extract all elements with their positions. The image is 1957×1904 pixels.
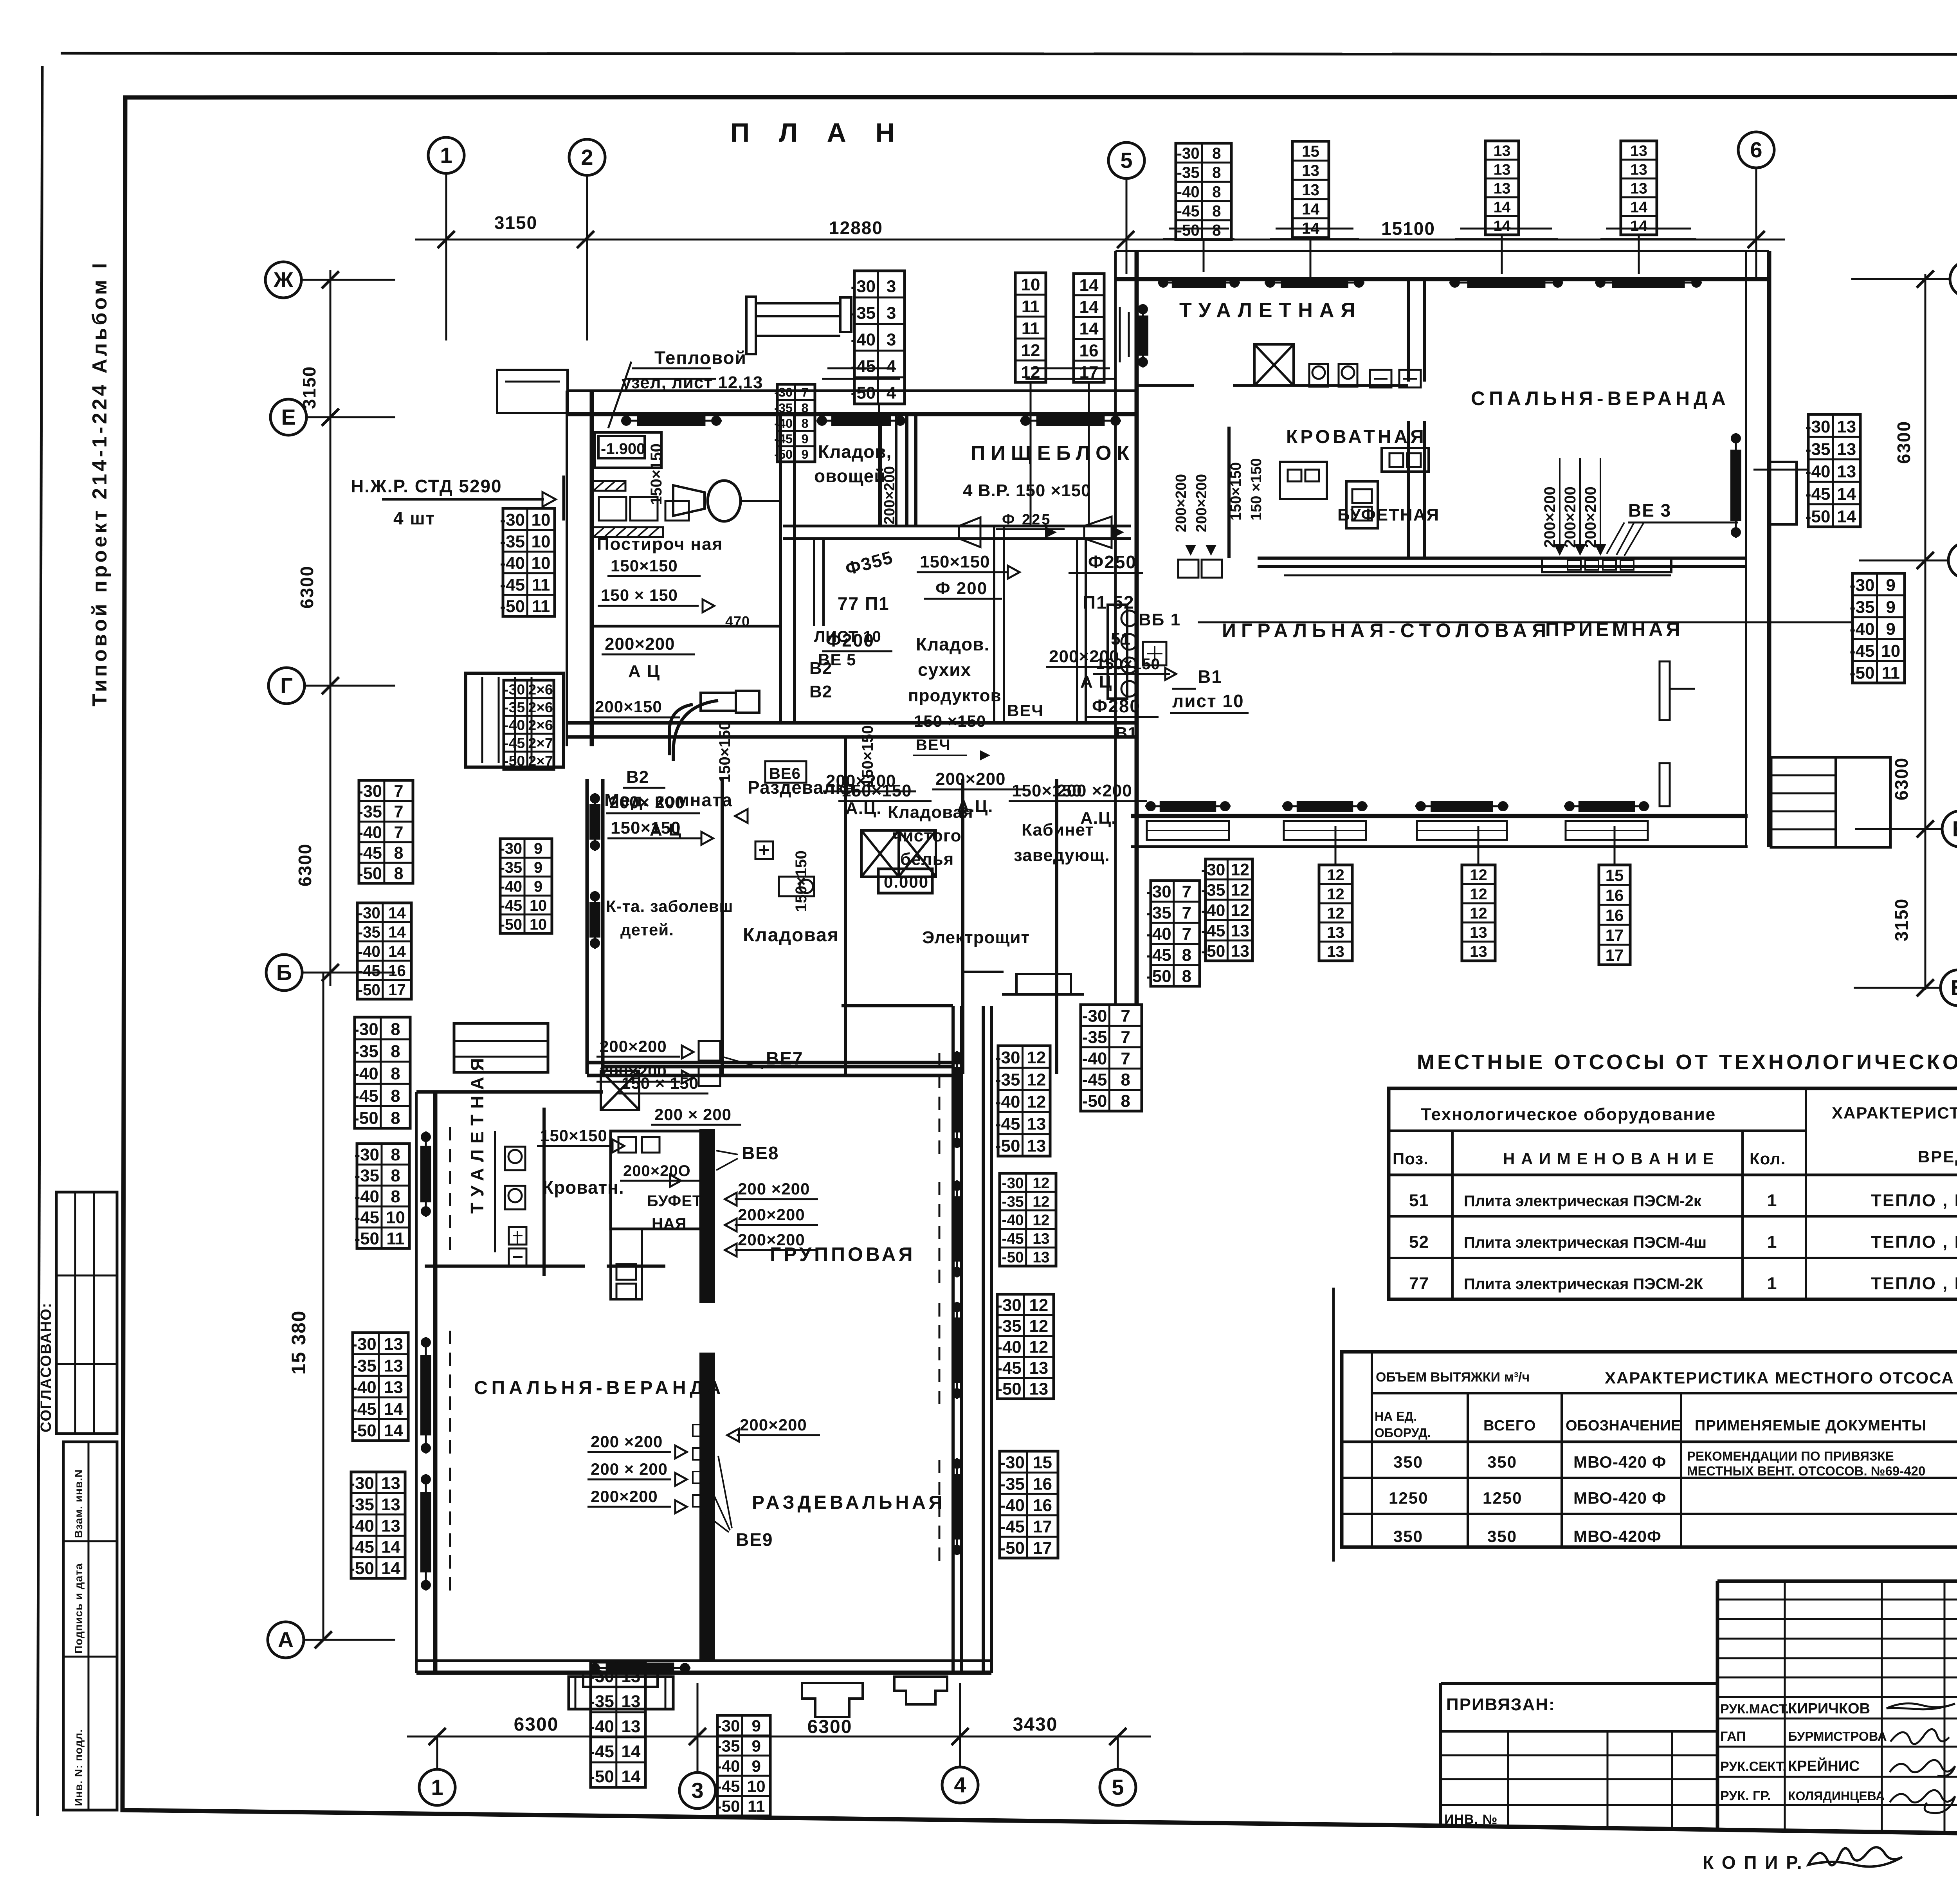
svg-text:13: 13	[1630, 142, 1647, 159]
svg-text:-35: -35	[354, 1166, 379, 1185]
svg-text:6300: 6300	[297, 566, 317, 609]
svg-text:200 ×200: 200 ×200	[591, 1432, 663, 1451]
table T19	[351, 1472, 405, 1578]
svg-text:15: 15	[1606, 866, 1624, 884]
svg-text:14: 14	[381, 1538, 400, 1557]
table T15	[357, 903, 411, 999]
svg-text:200×200: 200×200	[600, 1062, 667, 1081]
svg-text:10: 10	[532, 510, 551, 530]
svg-text:А: А	[278, 1627, 294, 1652]
svg-text:-40: -40	[1201, 901, 1225, 920]
svg-text:-40: -40	[354, 1187, 379, 1206]
title block middle grid	[1717, 1580, 1957, 1583]
svg-text:-30: -30	[1806, 417, 1831, 436]
svg-text:Раздевалка: Раздевалка	[748, 777, 855, 798]
UR block left wall	[1114, 251, 1117, 1006]
svg-text:Инв. N: подл.: Инв. N: подл.	[72, 1729, 85, 1806]
svg-text:-50: -50	[349, 1559, 374, 1578]
svg-text:200×200: 200×200	[1582, 486, 1599, 548]
UL block top wall	[567, 389, 1137, 392]
svg-text:3: 3	[887, 277, 896, 296]
main duct П1	[783, 525, 1131, 528]
svg-text:8: 8	[394, 864, 403, 883]
svg-text:МВО-420 Ф: МВО-420 Ф	[1573, 1489, 1667, 1507]
svg-text:8: 8	[1121, 1070, 1130, 1090]
svg-text:13: 13	[1837, 417, 1856, 436]
svg-text:Кол.: Кол.	[1750, 1149, 1786, 1168]
svg-text:4 шт: 4 шт	[393, 508, 435, 528]
svg-text:В2: В2	[626, 767, 649, 787]
LL block right wall (double pair)	[951, 1006, 955, 1673]
UR misc boxes near ВБ1	[1178, 560, 1198, 578]
svg-text:150×150: 150×150	[1228, 462, 1244, 521]
svg-text:8: 8	[391, 1042, 400, 1061]
svg-text:8: 8	[1121, 1092, 1130, 1111]
svg-text:-40: -40	[351, 1378, 377, 1397]
svg-text:-45: -45	[353, 1086, 378, 1106]
svg-text:13: 13	[1494, 142, 1511, 159]
duct vertical x2540	[993, 526, 995, 723]
svg-text:Типовой проект 214-1-224: Типовой проект 214-1-224 Альбом I	[88, 260, 111, 706]
table T16	[355, 1017, 410, 1128]
svg-text:МВО-420 Ф: МВО-420 Ф	[1573, 1453, 1667, 1471]
svg-text:8: 8	[391, 1145, 400, 1164]
svg-text:12: 12	[1033, 1175, 1049, 1192]
axis circle 5 top	[1108, 142, 1144, 178]
bottom dimension line	[407, 1736, 1151, 1738]
svg-text:ЛИСТ 10: ЛИСТ 10	[814, 628, 881, 645]
axis circle Д right	[1948, 542, 1957, 578]
table T30	[717, 1715, 770, 1816]
svg-text:14: 14	[1630, 198, 1647, 216]
svg-text:14: 14	[388, 904, 406, 922]
svg-text:15: 15	[1033, 1453, 1052, 1472]
svg-text:-40: -40	[1082, 1049, 1107, 1068]
svg-text:-35: -35	[500, 859, 522, 876]
svg-text:-40: -40	[774, 416, 793, 431]
svg-text:11: 11	[1881, 663, 1900, 683]
svg-text:16: 16	[388, 962, 406, 980]
svg-text:8: 8	[391, 1109, 400, 1128]
mid row walls	[586, 779, 589, 1074]
svg-text:17: 17	[1606, 946, 1624, 964]
svg-text:-45: -45	[351, 1400, 377, 1419]
svg-text:15100: 15100	[1381, 218, 1435, 239]
svg-text:ВЕ 5: ВЕ 5	[818, 650, 856, 669]
axis circle 1 top	[428, 137, 464, 173]
svg-text:13: 13	[1327, 924, 1344, 941]
axis circle 5 bottom	[1100, 1769, 1136, 1805]
axis circle В right	[1942, 811, 1957, 847]
svg-text:Мед. комната: Мед. комната	[604, 790, 733, 810]
svg-text:-45: -45	[997, 1358, 1021, 1378]
svg-text:8: 8	[391, 1086, 400, 1106]
LL bottom entrance porches	[569, 1677, 673, 1709]
svg-text:200×200: 200×200	[738, 1230, 805, 1249]
svg-text:8: 8	[391, 1064, 400, 1083]
axis circle 1 bottom	[419, 1769, 455, 1805]
svg-text:10: 10	[386, 1208, 405, 1227]
svg-text:Кладов.: Кладов.	[916, 634, 989, 654]
UR Кроватная fixtures	[1280, 462, 1327, 499]
svg-text:10: 10	[747, 1777, 766, 1795]
LL block bottom wall	[416, 1659, 991, 1662]
svg-text:-30: -30	[351, 1335, 377, 1354]
svg-text:150×150: 150×150	[1012, 781, 1082, 800]
svg-text:12: 12	[1470, 885, 1487, 903]
svg-text:9: 9	[1886, 598, 1896, 617]
svg-text:14: 14	[1630, 217, 1647, 234]
table 1 frame	[1389, 1088, 1957, 1299]
svg-text:-30: -30	[851, 277, 876, 296]
svg-text:14: 14	[384, 1421, 403, 1440]
svg-text:13: 13	[1029, 1379, 1048, 1398]
svg-text:5: 5	[1112, 1775, 1124, 1800]
svg-text:14: 14	[1079, 276, 1099, 295]
svg-text:ВЕ 3: ВЕ 3	[1628, 500, 1671, 521]
svg-text:Г: Г	[280, 673, 293, 698]
svg-text:-35: -35	[358, 923, 380, 941]
svg-text:РЕКОМЕНДАЦИИ ПО ПРИВЯЗКЕ: РЕКОМЕНДАЦИИ ПО ПРИВЯЗКЕ	[1687, 1449, 1894, 1463]
svg-text:ПРИЕМНАЯ: ПРИЕМНАЯ	[1545, 618, 1683, 640]
svg-text:НА ЕД.: НА ЕД.	[1375, 1409, 1417, 1423]
table T02	[1015, 273, 1046, 382]
svg-text:ОБЪЕМ ВЫТЯЖКИ м³/ч: ОБЪЕМ ВЫТЯЖКИ м³/ч	[1376, 1370, 1530, 1385]
svg-text:8: 8	[1212, 183, 1221, 201]
svg-text:12: 12	[1231, 861, 1249, 879]
svg-text:13: 13	[1837, 440, 1856, 459]
table T06	[1485, 141, 1519, 235]
svg-text:9: 9	[1886, 620, 1896, 639]
signature squiggles	[1887, 1704, 1955, 1709]
svg-text:7: 7	[1182, 903, 1191, 922]
svg-text:-40: -40	[500, 878, 522, 895]
svg-text:ВЕЧ: ВЕЧ	[916, 737, 951, 754]
svg-text:16: 16	[1033, 1474, 1052, 1493]
top dimension line	[415, 239, 1785, 241]
table T29	[591, 1662, 645, 1787]
svg-text:-50: -50	[1002, 1249, 1024, 1266]
svg-text:БУФЕТ-: БУФЕТ-	[647, 1192, 708, 1210]
radiator left wall mid row	[594, 793, 596, 851]
svg-text:-45: -45	[1000, 1517, 1025, 1536]
svg-text:МЕСТНЫЕ ОТСОСЫ ОТ ТЕХНОЛ: МЕСТНЫЕ ОТСОСЫ ОТ ТЕХНОЛОГИЧЕСКОГО ОБОРУ…	[1417, 1050, 1957, 1074]
svg-text:3: 3	[887, 303, 896, 322]
table T24	[1599, 865, 1630, 965]
svg-text:-50: -50	[774, 447, 793, 461]
svg-text:200×200: 200×200	[740, 1416, 807, 1434]
svg-text:17: 17	[1606, 926, 1624, 944]
svg-text:9: 9	[534, 878, 542, 895]
table T17	[357, 1144, 409, 1248]
table T05	[1292, 141, 1329, 238]
axis circle Б left	[266, 955, 302, 991]
svg-text:-30: -30	[1850, 576, 1875, 595]
svg-text:ПРИМЕНЯЕМЫЕ ДОКУМЕНТЫ: ПРИМЕНЯЕМЫЕ ДОКУМЕНТЫ	[1695, 1418, 1926, 1434]
svg-text:9: 9	[752, 1737, 761, 1755]
svg-text:350: 350	[1393, 1453, 1423, 1471]
svg-text:-30: -30	[716, 1717, 740, 1735]
svg-text:ПРИВЯЗАН:: ПРИВЯЗАН:	[1446, 1695, 1555, 1714]
svg-text:13: 13	[381, 1474, 400, 1493]
svg-text:-50: -50	[995, 1137, 1020, 1156]
elbow duct bottom-left UL	[669, 704, 693, 755]
svg-text:9: 9	[1886, 576, 1896, 595]
dim line 15380	[323, 973, 324, 1640]
svg-text:-50: -50	[351, 1421, 377, 1440]
UR windows bottom wall	[1145, 805, 1231, 807]
svg-text:200×200: 200×200	[1193, 474, 1210, 532]
svg-text:-45: -45	[1146, 946, 1171, 965]
svg-text:12: 12	[1033, 1193, 1049, 1210]
svg-text:-30: -30	[1002, 1175, 1024, 1192]
svg-text:3430: 3430	[1013, 1714, 1058, 1735]
svg-text:-35: -35	[1201, 881, 1225, 900]
svg-text:12880: 12880	[829, 218, 883, 238]
svg-text:6300: 6300	[514, 1714, 559, 1735]
svg-text:ВРЕДНОСТЕЙ: ВРЕДНОСТЕЙ	[1918, 1147, 1957, 1166]
svg-text:12: 12	[1029, 1338, 1048, 1357]
svg-text:200×200: 200×200	[1541, 486, 1559, 548]
LL interior: Туалетная right wall	[542, 1108, 546, 1276]
svg-text:ИГРАЛЬНАЯ-СТОЛОВАЯ: ИГРАЛЬНАЯ-СТОЛОВАЯ	[1222, 620, 1551, 641]
svg-text:В2: В2	[809, 682, 832, 701]
stairs porch left of UL	[466, 673, 564, 767]
svg-text:-30: -30	[774, 385, 793, 400]
svg-text:13: 13	[1494, 161, 1511, 178]
svg-text:15 380: 15 380	[288, 1310, 310, 1375]
svg-text:Е: Е	[281, 405, 296, 429]
svg-text:6300: 6300	[807, 1717, 852, 1737]
svg-text:350: 350	[1487, 1527, 1517, 1546]
axis circle Ж left	[265, 262, 301, 298]
svg-text:-50: -50	[353, 1109, 378, 1128]
svg-text:-35: -35	[1177, 164, 1199, 182]
connector porch between blocks	[1016, 974, 1071, 994]
svg-text:13: 13	[1630, 180, 1647, 197]
UL plates (51/52) symbols right side	[1121, 611, 1137, 626]
svg-text:-50: -50	[1146, 967, 1171, 986]
svg-text:-30: -30	[1082, 1007, 1107, 1026]
UR interior partition vertical (Туалетная/Спальня)	[1407, 279, 1410, 382]
svg-text:-40: -40	[1806, 462, 1831, 481]
svg-text:7: 7	[1121, 1007, 1130, 1026]
svg-text:11: 11	[1022, 319, 1040, 338]
svg-text:ВЕЧ: ВЕЧ	[1007, 701, 1044, 720]
svg-text:-50: -50	[1201, 942, 1225, 961]
axis circle А left	[268, 1622, 304, 1658]
svg-text:7: 7	[1182, 924, 1191, 944]
svg-text:-30: -30	[500, 510, 525, 530]
svg-text:16: 16	[1079, 341, 1099, 360]
svg-text:Б: Б	[276, 960, 292, 985]
svg-text:14: 14	[384, 1400, 403, 1419]
mid row X boxes	[861, 830, 899, 877]
svg-text:200×200: 200×200	[600, 1037, 667, 1056]
svg-text:4: 4	[954, 1773, 966, 1797]
svg-text:16: 16	[1606, 886, 1624, 904]
svg-text:-40: -40	[716, 1757, 740, 1775]
svg-text:200×20O: 200×20O	[623, 1162, 691, 1180]
svg-text:11: 11	[748, 1797, 765, 1816]
svg-text:14: 14	[621, 1767, 640, 1786]
svg-text:14: 14	[1494, 217, 1511, 234]
svg-text:ОБОРУД.: ОБОРУД.	[1375, 1426, 1431, 1440]
svg-text:150×150: 150×150	[611, 818, 681, 838]
table T21	[1206, 859, 1252, 961]
UL vertical duct В1	[1076, 539, 1078, 723]
svg-text:13: 13	[1837, 462, 1856, 481]
svg-text:-35: -35	[349, 1495, 374, 1514]
table T09	[1852, 573, 1905, 683]
svg-text:12: 12	[1027, 1070, 1046, 1090]
svg-text:-35: -35	[353, 1042, 378, 1061]
svg-text:2: 2	[581, 145, 593, 169]
svg-text:11: 11	[532, 575, 550, 594]
svg-text:10: 10	[530, 897, 547, 914]
svg-text:Взам. инв.N: Взам. инв.N	[72, 1469, 85, 1538]
svg-text:узел, лист 12,13: узел, лист 12,13	[622, 373, 763, 392]
svg-text:12: 12	[1327, 904, 1344, 922]
UL block bottom wall	[567, 721, 1137, 725]
svg-text:Поз.: Поз.	[1393, 1149, 1429, 1168]
margin approval table upper	[56, 1192, 117, 1434]
svg-text:13: 13	[1231, 942, 1249, 961]
svg-text:ТУАЛЕТНАЯ: ТУАЛЕТНАЯ	[467, 1052, 487, 1214]
table T14	[500, 839, 552, 933]
svg-text:-50: -50	[358, 864, 382, 883]
svg-text:Б: Б	[1951, 975, 1957, 1000]
svg-text:-35: -35	[358, 803, 382, 821]
UL partition horizontal	[592, 625, 780, 628]
axis circle 3 bottom	[679, 1773, 715, 1809]
svg-text:13: 13	[621, 1717, 640, 1736]
svg-text:ТУАЛЕТНАЯ: ТУАЛЕТНАЯ	[1179, 299, 1362, 322]
svg-text:12: 12	[1470, 904, 1487, 922]
UL porch top-left	[497, 370, 568, 413]
svg-text:заведующ.: заведующ.	[1014, 846, 1110, 865]
svg-text:-35: -35	[1000, 1474, 1025, 1493]
svg-text:-40: -40	[353, 1064, 378, 1083]
svg-text:В: В	[1952, 816, 1957, 841]
svg-text:-45: -45	[1201, 922, 1225, 940]
svg-text:7: 7	[802, 385, 809, 400]
UR Туалетная fixtures	[1254, 344, 1294, 385]
table T26	[997, 1294, 1054, 1399]
svg-text:-50: -50	[1806, 507, 1831, 526]
UL П1 branch arrows	[1045, 526, 1057, 538]
svg-text:350: 350	[1487, 1453, 1517, 1471]
svg-text:-40: -40	[997, 1338, 1021, 1357]
svg-text:14: 14	[1494, 198, 1511, 216]
svg-text:МВО-420Ф: МВО-420Ф	[1573, 1527, 1661, 1546]
svg-text:17: 17	[1033, 1517, 1052, 1536]
svg-text:17: 17	[1033, 1538, 1052, 1558]
svg-text:СОГЛАСОВАНО:: СОГЛАСОВАНО:	[38, 1302, 54, 1432]
svg-text:-40: -40	[358, 942, 380, 960]
svg-text:8: 8	[394, 844, 403, 863]
svg-text:13: 13	[1027, 1114, 1046, 1133]
table T12	[504, 680, 554, 769]
table T10	[503, 508, 555, 616]
UR windows top wall	[1163, 238, 1234, 240]
table T01	[854, 271, 905, 404]
table T27	[1000, 1451, 1058, 1558]
svg-text:11: 11	[1022, 297, 1040, 316]
outer border left line	[38, 66, 42, 1816]
svg-text:200×200: 200×200	[935, 769, 1006, 789]
svg-text:-45: -45	[1082, 1070, 1107, 1090]
svg-text:1: 1	[1767, 1274, 1777, 1293]
svg-text:1: 1	[1767, 1191, 1777, 1210]
svg-text:-35: -35	[500, 532, 525, 551]
svg-text:-45: -45	[851, 357, 876, 376]
svg-text:Кладовая: Кладовая	[743, 925, 839, 946]
svg-text:-45: -45	[1850, 641, 1875, 661]
long bench below BE3	[1542, 558, 1671, 572]
svg-text:6300: 6300	[1894, 421, 1914, 464]
svg-text:-50: -50	[851, 383, 876, 402]
svg-text:8: 8	[1212, 202, 1221, 220]
svg-text:13: 13	[1033, 1230, 1049, 1247]
svg-text:13: 13	[381, 1516, 400, 1535]
svg-text:150×150: 150×150	[716, 721, 733, 783]
svg-text:-40: -40	[589, 1717, 614, 1736]
svg-text:-35: -35	[716, 1737, 740, 1755]
svg-text:8: 8	[1212, 144, 1221, 162]
svg-text:СПАЛЬНЯ-ВЕРАНДА: СПАЛЬНЯ-ВЕРАНДА	[474, 1378, 724, 1398]
svg-text:200×200: 200×200	[1562, 486, 1579, 548]
svg-text:-30: -30	[995, 1048, 1020, 1067]
table T04	[1176, 143, 1231, 240]
svg-text:Ф280: Ф280	[1092, 696, 1141, 716]
svg-text:ТЕПЛО , ВЛАГА: ТЕПЛО , ВЛАГА	[1871, 1274, 1957, 1293]
svg-text:-1.900: -1.900	[601, 440, 645, 458]
svg-text:10: 10	[532, 554, 551, 573]
svg-text:13: 13	[381, 1495, 400, 1514]
svg-text:15: 15	[1302, 142, 1319, 160]
svg-text:овощей: овощей	[814, 466, 886, 486]
svg-text:13: 13	[384, 1335, 403, 1354]
svg-text:14: 14	[1837, 485, 1856, 504]
svg-text:К О П И Р.: К О П И Р.	[1703, 1852, 1804, 1873]
svg-text:150×150: 150×150	[1096, 656, 1160, 673]
svg-text:Н А И М Е Н О В А Н И Е: Н А И М Е Н О В А Н И Е	[1503, 1149, 1714, 1168]
table T08	[1808, 414, 1860, 527]
svg-text:150×150: 150×150	[859, 725, 876, 787]
svg-text:ОБОЗНАЧЕНИЕ: ОБОЗНАЧЕНИЕ	[1566, 1418, 1681, 1434]
UR mid horizontal wall	[1258, 557, 1746, 560]
svg-text:-50: -50	[500, 916, 522, 933]
svg-text:ВЕ9: ВЕ9	[736, 1529, 773, 1550]
UR Приемная door marks	[1660, 661, 1670, 720]
svg-text:Плита электрическая ПЭСМ-2К: Плита электрическая ПЭСМ-2К	[1464, 1275, 1703, 1293]
svg-text:77: 77	[1409, 1274, 1429, 1293]
svg-text:13: 13	[1302, 162, 1319, 180]
svg-text:14: 14	[1079, 319, 1099, 339]
svg-text:-40: -40	[1002, 1212, 1024, 1229]
svg-text:-50: -50	[589, 1767, 614, 1786]
svg-text:12: 12	[1027, 1048, 1046, 1067]
svg-text:-35: -35	[997, 1317, 1021, 1336]
svg-text:470: 470	[725, 613, 750, 629]
svg-text:ПИЩЕБЛОК: ПИЩЕБЛОК	[971, 442, 1135, 465]
svg-text:200×200: 200×200	[738, 1205, 805, 1224]
svg-text:10: 10	[530, 916, 547, 933]
svg-text:10: 10	[1021, 275, 1040, 294]
svg-text:ИНВ. №: ИНВ. №	[1444, 1812, 1497, 1827]
svg-text:Плита электрическая ПЭСМ-2к: Плита электрическая ПЭСМ-2к	[1464, 1192, 1702, 1210]
